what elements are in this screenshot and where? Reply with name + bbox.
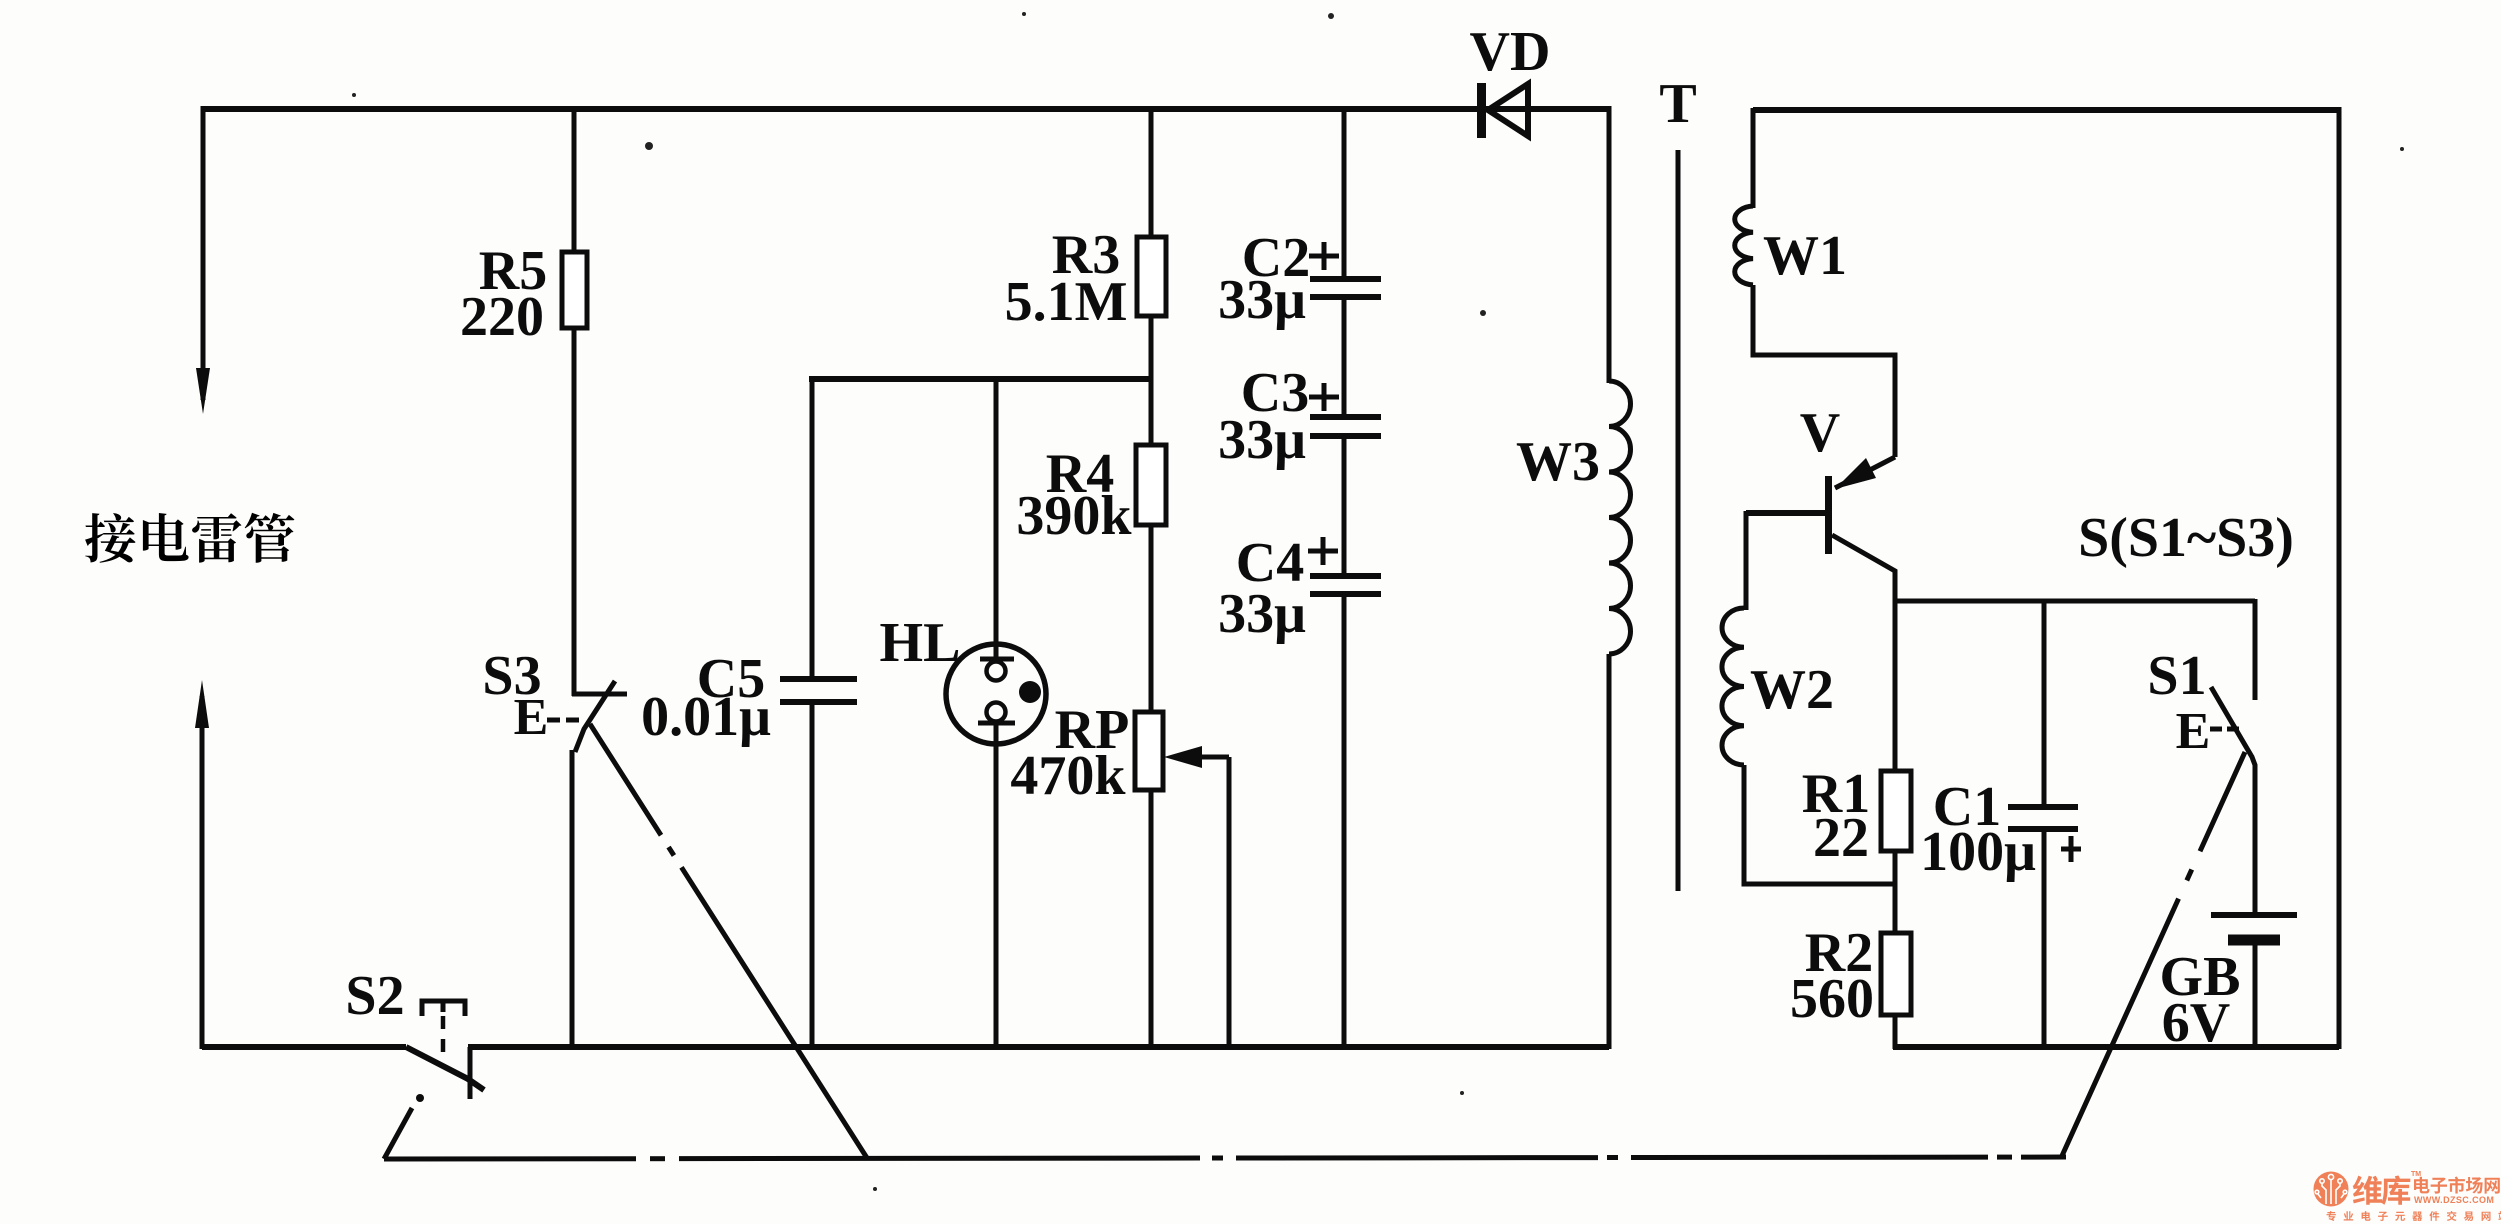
svg-text:S2: S2: [345, 965, 404, 1027]
svg-text:W1: W1: [1763, 225, 1847, 287]
svg-text:S1: S1: [2147, 645, 2206, 707]
svg-text:470k: 470k: [1010, 745, 1126, 807]
svg-text:33μ: 33μ: [1218, 269, 1306, 331]
svg-text:6V: 6V: [2162, 992, 2230, 1054]
svg-text:0.01μ: 0.01μ: [641, 686, 771, 748]
svg-text:220: 220: [460, 286, 544, 348]
svg-text:22: 22: [1813, 807, 1869, 869]
svg-text:S(S1~S3): S(S1~S3): [2078, 507, 2294, 569]
svg-text:390k: 390k: [1016, 485, 1132, 547]
svg-text:W2: W2: [1750, 659, 1834, 721]
svg-text:W3: W3: [1516, 431, 1600, 493]
svg-text:V: V: [1800, 402, 1840, 464]
svg-text:HL: HL: [880, 612, 961, 674]
svg-text:5.1M: 5.1M: [1005, 271, 1128, 333]
svg-text:33μ: 33μ: [1218, 583, 1306, 645]
svg-text:33μ: 33μ: [1218, 409, 1306, 471]
svg-text:E: E: [2176, 703, 2211, 760]
svg-text:VD: VD: [1470, 21, 1551, 83]
svg-text:560: 560: [1790, 968, 1874, 1030]
svg-text:E: E: [514, 689, 549, 746]
svg-text:WWW.DZSC.COM: WWW.DZSC.COM: [2414, 1195, 2494, 1205]
svg-text:100μ: 100μ: [1920, 821, 2036, 883]
svg-text:T: T: [1659, 73, 1696, 135]
